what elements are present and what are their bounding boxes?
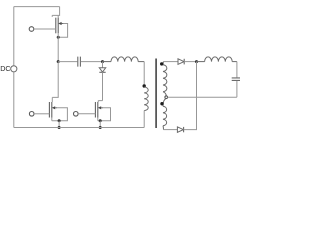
bottom rail wire	[14, 127, 144, 129]
wire D1 to node B	[184, 61, 196, 63]
wire source Q1 to mid node	[57, 33, 59, 61]
node center tap	[165, 96, 168, 99]
inductor L2	[197, 57, 237, 62]
wire secondary top to D1	[164, 61, 179, 63]
DC source V1	[0, 64, 17, 73]
wire source Q2 to bottom rail	[58, 121, 60, 128]
wire drain Q2	[52, 62, 58, 102]
left rail wire	[13, 7, 15, 128]
node source Q2 on bottom rail	[58, 126, 61, 129]
node primary phasing dot	[143, 84, 146, 87]
transformer T1 primary winding	[144, 87, 148, 111]
node secondary bottom phasing dot	[160, 102, 163, 105]
transformer T1 core	[155, 59, 157, 129]
wire primary to bottom rail	[143, 111, 145, 128]
wire D2 to node B	[184, 62, 197, 130]
wire body-source Q1	[57, 24, 68, 39]
diode D2	[177, 127, 183, 132]
node A junction	[101, 60, 104, 63]
wire body-source Q2	[52, 108, 68, 122]
transformer T1 secondary top winding	[163, 62, 167, 96]
diode D3	[99, 62, 105, 101]
transistor Q1	[29, 18, 63, 34]
wire mid rail to transformer primary	[143, 62, 145, 85]
node source Q3 on bottom rail	[99, 126, 102, 129]
wire drain Q3	[98, 101, 102, 102]
transistor Q3	[74, 102, 104, 118]
transistor Q2	[29, 102, 57, 118]
node mid junction	[57, 60, 60, 63]
wire secondary bottom to D2	[164, 129, 178, 131]
wire L2 to C2	[236, 62, 238, 78]
wire mid rail left	[58, 61, 77, 63]
svg-text:DC: DC	[0, 64, 10, 73]
wire mid rail right	[81, 61, 103, 63]
diode D1	[178, 59, 184, 65]
capacitor C2	[232, 78, 240, 81]
transformer T1 secondary bottom winding	[163, 99, 167, 130]
node B junction	[195, 60, 198, 63]
wire drain Q1	[52, 7, 59, 18]
node secondary top phasing dot	[160, 62, 163, 65]
wire C2 to return rail	[236, 81, 238, 97]
top rail wire	[14, 6, 60, 8]
wire source Q3 to bottom rail	[99, 121, 101, 128]
wire return rail	[168, 96, 237, 98]
inductor L1	[103, 57, 145, 62]
capacitor C1	[78, 57, 81, 67]
wire body-source Q3	[98, 108, 111, 122]
